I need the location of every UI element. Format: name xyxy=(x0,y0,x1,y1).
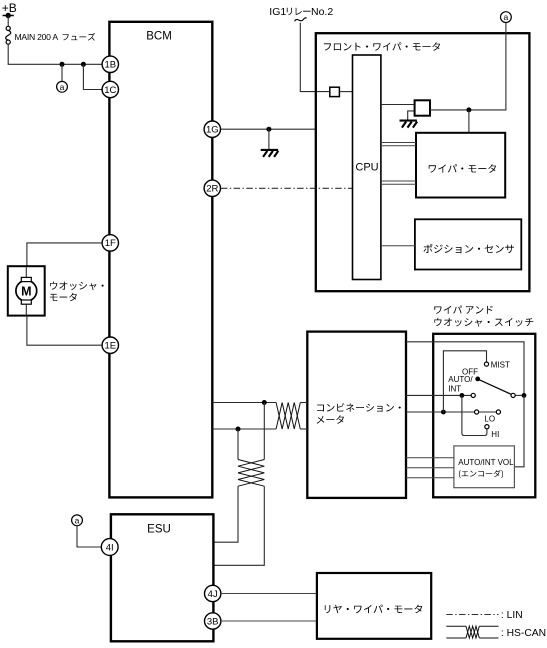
wire junction to pin 1C xyxy=(83,64,101,89)
switch lever pivot xyxy=(475,377,480,382)
junction wiper motor feed xyxy=(466,107,471,112)
node a (top left) xyxy=(57,81,68,92)
pin 1G xyxy=(204,121,220,137)
HS-CAN pair down to ESU (line 2) xyxy=(263,403,265,460)
svg-text:MIST: MIST xyxy=(491,360,510,369)
junction AUTO/INT xyxy=(460,393,465,398)
fuse F1 MAIN 200 A xyxy=(6,26,11,44)
wire into motor + xyxy=(25,267,27,277)
junction pin 1C branch xyxy=(81,62,86,67)
connector (motor feed) xyxy=(415,100,430,115)
junction ground branch xyxy=(266,127,271,132)
svg-text:a: a xyxy=(504,12,509,22)
wire IG1 relay to connector xyxy=(300,23,330,92)
svg-text:1C: 1C xyxy=(104,85,116,96)
contact AUTO/INT xyxy=(471,393,475,397)
wire pin 1F to washer motor xyxy=(27,243,102,266)
wire CPU to position sensor xyxy=(381,245,415,247)
wire +B to fuse xyxy=(7,16,9,27)
wire lever to common xyxy=(515,394,524,396)
switch lever end contact xyxy=(511,393,515,397)
pin 4J xyxy=(205,585,221,601)
svg-text:+B: +B xyxy=(2,1,17,15)
wire CPU to motor-feed connector xyxy=(381,104,415,106)
ESU box xyxy=(111,514,213,641)
BCM box xyxy=(109,22,212,498)
svg-text:2R: 2R xyxy=(206,184,218,195)
svg-text:HI: HI xyxy=(491,430,499,439)
pin 3B xyxy=(205,613,221,629)
ground (1G circuit) xyxy=(261,150,279,157)
wire HI link xyxy=(462,395,487,435)
wire node a to pin 4I xyxy=(77,526,101,547)
wire fuse to pin 1B xyxy=(8,44,102,64)
label IG1 relay No.2 xyxy=(269,6,333,18)
svg-text:M: M xyxy=(21,284,31,298)
svg-text:1F: 1F xyxy=(105,238,116,249)
label wiper and washer switch xyxy=(434,306,533,327)
pin 1F xyxy=(102,235,118,251)
label washer motor xyxy=(50,282,104,302)
combination meter box xyxy=(307,332,406,498)
HS-CAN pair down to ESU (line 1) xyxy=(237,429,239,460)
svg-text:3B: 3B xyxy=(207,616,219,627)
wire motor to box edge xyxy=(25,304,27,314)
HS-CAN wire BCM to meter (CAN L) xyxy=(212,428,276,430)
legend HS-CAN xyxy=(446,626,546,639)
wire LO link xyxy=(479,411,496,413)
svg-text:a: a xyxy=(60,82,65,92)
legend LIN xyxy=(446,610,522,621)
LIN bus pin 2R to CPU xyxy=(221,187,353,189)
svg-text:MAIN 200 A: MAIN 200 A xyxy=(15,32,59,42)
svg-text:CPU: CPU xyxy=(355,162,378,174)
front wiper motor box xyxy=(316,33,530,291)
twisted pair (BCM to meter) xyxy=(276,403,300,430)
wire switch common to encoder xyxy=(514,395,524,466)
connector (IG1 feed) xyxy=(330,87,340,96)
wiper and washer switch box xyxy=(433,334,535,498)
wire pin 1G to front wiper motor box xyxy=(221,128,316,130)
wire junction to wiper motor xyxy=(468,110,470,133)
wire connector to CPU xyxy=(339,91,352,93)
label MAIN 200 A fuse xyxy=(15,32,96,42)
svg-text:ESU: ESU xyxy=(147,524,171,536)
washer motor box xyxy=(8,266,45,315)
junction CAN L xyxy=(236,427,241,432)
svg-text:1G: 1G xyxy=(206,125,219,136)
label AUTO/INT xyxy=(448,375,473,393)
svg-text:a: a xyxy=(75,515,80,525)
wire 4J to rear wiper motor xyxy=(221,593,317,595)
node a (top right) xyxy=(501,12,512,23)
wire meter to AUTO/INT contact xyxy=(406,394,471,396)
rear wiper motor box xyxy=(317,573,431,639)
wire continuation mark (tilde) xyxy=(295,18,307,21)
svg-text:IG1: IG1 xyxy=(269,6,286,18)
wire MIST branch xyxy=(443,351,486,412)
pin 2R xyxy=(204,180,220,196)
svg-text:: HS-CAN: : HS-CAN xyxy=(501,628,546,639)
ground (motor feed) xyxy=(400,121,418,128)
contact MIST xyxy=(484,362,488,366)
encoder box AUTO/INT VOL xyxy=(454,446,515,488)
svg-text:No.2: No.2 xyxy=(311,6,333,18)
svg-text:BCM: BCM xyxy=(146,30,172,42)
wire 3B to rear wiper motor xyxy=(221,620,317,622)
junction CAN H xyxy=(262,400,267,405)
svg-text:4I: 4I xyxy=(106,542,114,553)
svg-text:: LIN: : LIN xyxy=(501,610,523,621)
wire pair CPU to wiper motor (upper) xyxy=(381,143,416,146)
power terminal +B xyxy=(2,1,17,18)
junction node a branch xyxy=(60,62,65,67)
svg-text:AUTO/INT VOL: AUTO/INT VOL xyxy=(458,458,514,467)
pin 4I xyxy=(101,539,118,556)
label encoder xyxy=(459,470,503,478)
position sensor box xyxy=(415,219,521,269)
pin 1B xyxy=(102,56,118,72)
node a (ESU) xyxy=(72,515,83,526)
svg-text:LO: LO xyxy=(484,415,495,424)
CPU U1 xyxy=(353,55,381,280)
wire junction to node a xyxy=(61,64,63,81)
ground stub (motor feed) xyxy=(408,111,415,120)
wiper motor box xyxy=(416,133,505,198)
svg-text:4J: 4J xyxy=(208,589,218,600)
wire washer motor to pin 1E xyxy=(27,317,102,346)
contact HI xyxy=(485,425,489,429)
twisted pair (to ESU) xyxy=(238,460,264,487)
junction switch common xyxy=(522,393,527,398)
svg-text:AUTO/: AUTO/ xyxy=(448,375,473,384)
svg-text:INT: INT xyxy=(448,385,461,394)
wire meter to LO contact xyxy=(406,411,474,413)
wires meter to encoder xyxy=(406,458,454,478)
switch lever xyxy=(479,380,511,395)
pin 1C xyxy=(102,81,118,97)
HS-CAN wire BCM to meter (CAN H) xyxy=(212,402,276,404)
svg-text:1B: 1B xyxy=(104,60,116,71)
contact LO (left) xyxy=(475,410,479,414)
junction LO / MIST branch xyxy=(441,410,446,415)
wire meter to switch common xyxy=(406,342,524,396)
wire connector to node a (right) xyxy=(430,23,506,110)
contact LO (right) xyxy=(496,410,500,414)
pin 1E xyxy=(102,337,118,353)
svg-text:1E: 1E xyxy=(104,341,116,352)
motor M (washer) xyxy=(16,277,37,304)
wire to ground xyxy=(268,129,270,149)
wire pair CPU to wiper motor (lower) xyxy=(381,181,416,184)
